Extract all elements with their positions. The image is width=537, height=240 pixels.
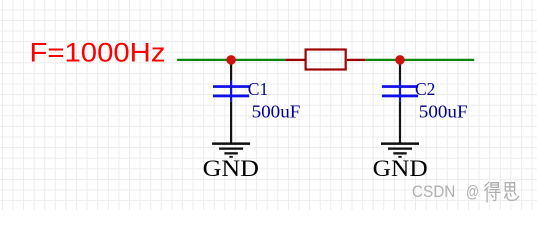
wire net2 segment right [365,59,474,61]
wire C2 to ground (black) [399,102,401,144]
resistor R1 pin 1 stub [285,59,304,61]
svg-text:C1: C1 [248,79,268,99]
ground GND2 bar 1 [381,142,419,145]
wire net1 segment left [177,59,285,61]
capacitor C2 pins (blue vertical) [399,81,401,102]
capacitor C1 bottom plate [213,95,249,98]
svg-text:F=1000Hz: F=1000Hz [30,38,166,68]
ground GND1 bar 3 [224,152,237,154]
svg-text:500uF: 500uF [419,102,468,122]
ground GND1 bar 1 [212,142,250,145]
watermark glyph 思 [505,183,519,201]
ground GND2 bar 2 [388,148,412,150]
capacitor C2 bottom plate [382,95,418,98]
svg-text:@: @ [466,182,479,201]
wire C1 to ground (black) [230,102,232,144]
junction node A [226,55,236,65]
svg-text:CSDN: CSDN [412,182,456,201]
capacitor C1 top plate [213,85,249,88]
svg-text:C2: C2 [415,79,435,99]
capacitor C2 top plate [382,85,418,88]
junction node B [395,55,405,65]
wire C1 vertical upper (black) [230,60,232,81]
resistor R1 pin 2 stub [347,59,365,61]
svg-text:500uF: 500uF [252,102,301,122]
resistor R1 body [306,50,346,70]
ground GND2 bar 4 [398,156,401,158]
watermark glyph 得 [485,182,501,202]
ground GND1 bar 2 [219,148,243,150]
ground GND2 bar 3 [393,152,406,154]
capacitor C1 pins (blue vertical) [230,81,232,102]
ground GND1 bar 4 [229,156,232,158]
wire C2 vertical upper (black) [399,60,401,81]
svg-text:GND: GND [373,156,428,182]
svg-text:GND: GND [203,156,259,182]
